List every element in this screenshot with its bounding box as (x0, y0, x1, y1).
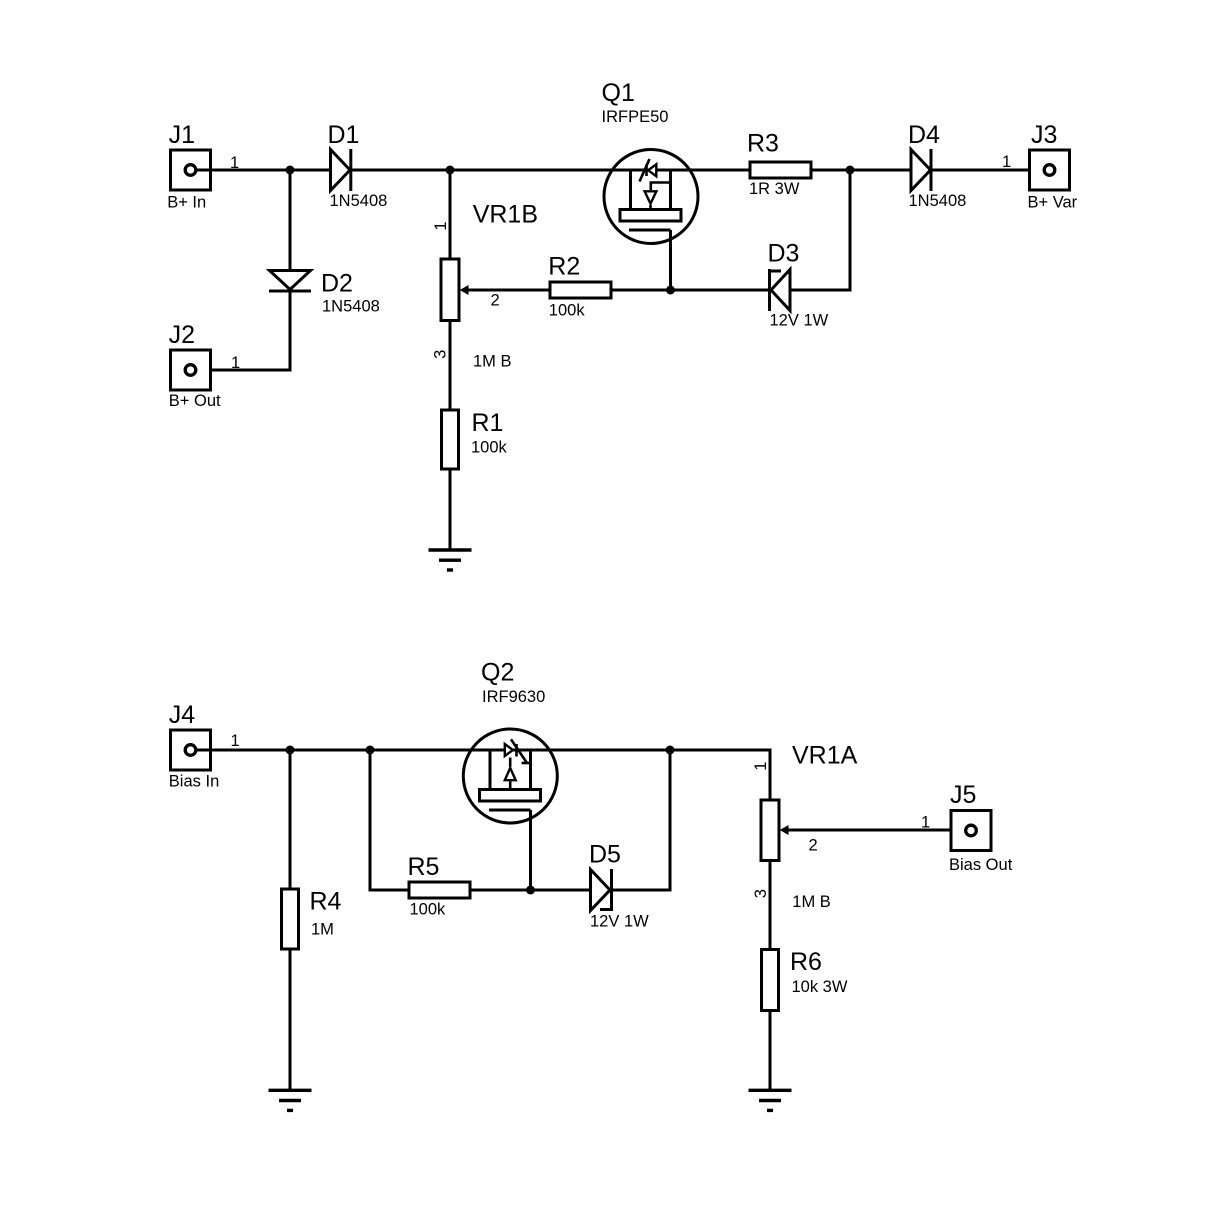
junction node Q1 gate / R2 / D3 (666, 286, 675, 295)
svg-text:Q1: Q1 (602, 79, 635, 107)
svg-text:R6: R6 (790, 948, 822, 976)
svg-text:Q2: Q2 (481, 659, 514, 687)
svg-text:D2: D2 (321, 270, 353, 298)
svg-text:R1: R1 (472, 409, 504, 437)
wire D4 to J3 (932, 169, 1045, 172)
wire R5 to D5 (470, 889, 591, 892)
svg-text:1M B: 1M B (792, 893, 831, 911)
svg-text:1: 1 (921, 814, 930, 832)
connector J2 (171, 350, 211, 390)
wire R4 to ground (289, 949, 292, 1090)
connector J4 (171, 730, 211, 770)
resistor R3 (750, 162, 811, 178)
svg-text:1M: 1M (311, 921, 334, 939)
potentiometer VR1A (761, 800, 789, 861)
connector J3 (1030, 150, 1070, 190)
svg-text:IRF9630: IRF9630 (482, 688, 545, 706)
svg-text:R4: R4 (310, 888, 342, 916)
junction node R4 tap (286, 746, 295, 755)
transistor Q1 (604, 150, 698, 244)
svg-text:1M B: 1M B (473, 353, 512, 371)
svg-text:100k: 100k (549, 302, 586, 320)
connector J5 (951, 811, 991, 851)
junction node VR1B tap (446, 166, 455, 175)
svg-text:R5: R5 (408, 853, 440, 881)
svg-text:100k: 100k (410, 901, 447, 919)
svg-text:J1: J1 (169, 121, 195, 149)
svg-text:D5: D5 (589, 841, 621, 869)
ground (R6) (749, 1090, 792, 1110)
svg-text:VR1A: VR1A (792, 742, 858, 770)
svg-text:J4: J4 (169, 701, 196, 729)
diode D2 (269, 271, 311, 292)
junction node J1/D1/D2 (286, 166, 295, 175)
wire J4 to VR1A corner through Q2 (196, 750, 770, 800)
wire D1 to R3 through Q1 (352, 169, 750, 172)
svg-text:1: 1 (231, 732, 240, 750)
ground (R4) (269, 1090, 312, 1110)
svg-text:2: 2 (491, 292, 500, 310)
wire D5 up to bias net (612, 750, 671, 890)
wire VR1B pin1 (449, 170, 452, 259)
zener diode D5 (591, 869, 612, 911)
diode D1 (331, 149, 351, 191)
svg-text:VR1B: VR1B (473, 201, 538, 229)
wire D2 branch down (289, 170, 292, 271)
resistor R1 (442, 410, 459, 469)
wire VR1B wiper to R2 (462, 289, 550, 292)
ground (R1) (429, 550, 472, 570)
wire R6 to ground (769, 1010, 772, 1090)
wire R1 to ground (449, 469, 452, 550)
potentiometer VR1B (441, 259, 469, 321)
resistor R5 (409, 882, 470, 898)
wire D2 to J2 corner (196, 291, 290, 370)
svg-text:1: 1 (752, 762, 770, 771)
resistor R4 (282, 889, 299, 949)
svg-text:B+ Out: B+ Out (169, 392, 221, 410)
svg-text:10k 3W: 10k 3W (792, 978, 848, 996)
svg-text:12V 1W: 12V 1W (590, 913, 649, 931)
svg-text:R3: R3 (747, 130, 779, 158)
svg-text:R2: R2 (548, 253, 580, 281)
diode D4 (911, 149, 931, 191)
wire D3 to R3/D4 node (790, 170, 850, 290)
wire Q2 gate down (529, 810, 532, 890)
svg-text:1R 3W: 1R 3W (749, 180, 800, 198)
svg-text:J2: J2 (169, 321, 195, 349)
svg-text:100k: 100k (471, 439, 508, 457)
svg-text:12V 1W: 12V 1W (770, 312, 829, 330)
resistor R6 (762, 950, 779, 1011)
wire R4 branch (289, 750, 292, 889)
svg-text:B+ In: B+ In (167, 194, 206, 212)
wire R3 to D4 (811, 169, 911, 172)
svg-text:Bias Out: Bias Out (949, 856, 1013, 874)
wire R2 to D3 (611, 289, 770, 292)
zener diode D3 (770, 269, 791, 311)
junction node D5 tap (666, 746, 675, 755)
svg-text:J5: J5 (950, 781, 976, 809)
junction node Q2 gate / R5 / D5 (526, 886, 535, 895)
wire J5 to VR1A wiper (782, 829, 964, 832)
svg-text:1: 1 (231, 354, 240, 372)
svg-text:D4: D4 (908, 121, 940, 149)
transistor Q2 (463, 729, 557, 823)
junction node R3/D3/D4 (846, 166, 855, 175)
svg-text:1N5408: 1N5408 (909, 192, 967, 210)
svg-text:Bias In: Bias In (169, 773, 219, 791)
svg-text:D3: D3 (768, 240, 800, 268)
svg-text:IRFPE50: IRFPE50 (602, 108, 669, 126)
svg-text:J3: J3 (1031, 121, 1057, 149)
svg-text:1: 1 (1002, 153, 1011, 171)
wire Q1 gate down to R2/D3 net (669, 230, 672, 290)
svg-text:3: 3 (752, 889, 770, 898)
svg-text:1N5408: 1N5408 (330, 192, 388, 210)
svg-text:1: 1 (432, 221, 450, 230)
wire R5 branch (370, 750, 409, 890)
svg-text:3: 3 (432, 350, 450, 359)
junction node R5 tap (366, 746, 375, 755)
svg-text:B+ Var: B+ Var (1028, 194, 1078, 212)
connector J1 (171, 150, 211, 190)
svg-text:D1: D1 (328, 121, 360, 149)
wire VR1B pin3 to R1 (449, 321, 452, 411)
resistor R2 (550, 282, 611, 298)
wire J1 to D1 (196, 169, 331, 172)
wire VR1A pin3 to R6 (769, 861, 772, 951)
svg-text:2: 2 (809, 837, 818, 855)
svg-text:1N5408: 1N5408 (322, 298, 380, 316)
